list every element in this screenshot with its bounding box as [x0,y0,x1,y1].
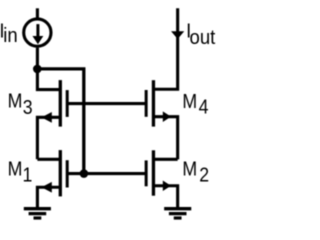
svg-text:1: 1 [23,164,33,187]
svg-text:M: M [182,158,197,181]
svg-text:in: in [3,24,17,47]
svg-text:out: out [190,26,216,49]
svg-text:M: M [182,91,197,114]
svg-text:M: M [8,90,23,113]
svg-text:3: 3 [23,97,33,120]
svg-text:2: 2 [199,164,209,187]
svg-text:4: 4 [199,97,209,120]
svg-text:M: M [8,158,23,181]
